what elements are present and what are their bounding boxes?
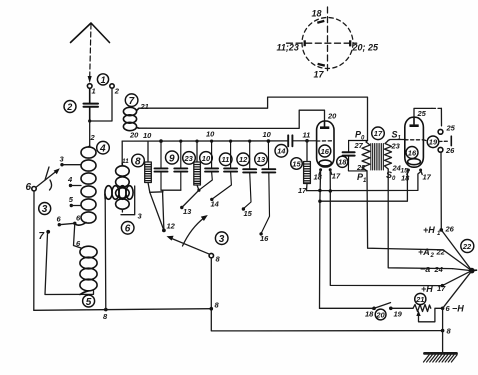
svg-text:23: 23: [391, 142, 401, 151]
grid bus wire 10: [122, 140, 288, 142]
contact 12: [162, 222, 176, 233]
svg-text:17: 17: [423, 173, 432, 182]
svg-text:17: 17: [374, 129, 383, 138]
filament switch S20: [320, 303, 403, 319]
svg-text:11;23: 11;23: [277, 43, 299, 53]
svg-text:8: 8: [135, 156, 141, 167]
svg-text:19: 19: [429, 138, 438, 147]
capacitor C2: [84, 88, 99, 121]
capacitor C13: [261, 141, 275, 233]
svg-text:5: 5: [86, 297, 92, 308]
capacitor ref 18 (circled): [337, 156, 348, 167]
svg-text:1: 1: [92, 87, 96, 96]
phone terminal 25: [438, 124, 456, 135]
svg-text:11: 11: [222, 155, 230, 164]
wire from anode bus down to 25: [440, 108, 442, 126]
svg-text:26: 26: [445, 146, 455, 155]
svg-text:11: 11: [303, 131, 311, 140]
svg-text:17: 17: [314, 70, 325, 80]
wire 17 down to +H lead: [330, 191, 442, 286]
tube V1 ref 16 (circled): [319, 145, 331, 157]
selector switch arm (3): [167, 236, 221, 264]
svg-text:16: 16: [321, 147, 330, 156]
svg-text:18: 18: [365, 310, 374, 319]
junction below C2: [88, 119, 91, 122]
svg-text:13: 13: [257, 155, 266, 164]
wire L7 top to P0 (wire 21): [139, 97, 368, 140]
svg-text:3: 3: [42, 204, 48, 215]
bottom left bus wire 8: [34, 309, 212, 311]
svg-text:4: 4: [67, 175, 73, 184]
node label 1 (circled): [97, 74, 108, 85]
T17 ref 17 (circled): [372, 127, 385, 140]
svg-text:27: 27: [354, 141, 364, 150]
svg-text:20: 20: [129, 131, 139, 140]
-a lead to cable: [453, 269, 472, 271]
capacitor ref 12 (circled): [237, 153, 250, 166]
svg-text:10: 10: [202, 154, 211, 163]
-H lead to cable: [443, 271, 472, 308]
rotation arc arrow: [183, 215, 208, 246]
left vertical wire from terminal 6: [33, 191, 35, 310]
switch S3 arm: [26, 167, 60, 193]
bus junction dots: [159, 139, 270, 143]
svg-text:7: 7: [39, 231, 45, 242]
wire S0 down to -a lead: [388, 169, 452, 269]
wire 2 down to coil L4: [89, 121, 91, 146]
tap 6 contact: [57, 215, 75, 227]
capacitor C18 across primary: [343, 141, 368, 171]
wire terminal2 to junction: [90, 88, 112, 121]
svg-text:11: 11: [122, 158, 129, 165]
node 6 junction: [73, 214, 81, 226]
tap 4: [67, 175, 81, 187]
svg-text:10: 10: [206, 130, 215, 139]
S1 wire to V2 grid: [388, 140, 406, 141]
svg-text:+H: +H: [421, 284, 433, 294]
svg-text:20: 20: [327, 112, 337, 121]
switch ref 20 (circled): [375, 309, 386, 320]
wire bus10 down to T6 top: [121, 141, 123, 163]
antenna arrow: [88, 76, 92, 83]
resistor R15 (grid leak V1): [304, 141, 311, 191]
tube V1 (16) envelope: [317, 121, 334, 167]
wire arm pivot down to bus 8: [211, 258, 442, 331]
ground: [424, 331, 458, 362]
filament line B (wire 18): [320, 172, 408, 201]
T17 core: [371, 144, 384, 171]
svg-text:23: 23: [184, 154, 194, 163]
interstage transformer T17 primary: [362, 141, 370, 171]
tube socket dial: [277, 7, 380, 80]
tap 3: [60, 155, 82, 167]
rheostat ref 21 (circled): [415, 293, 426, 304]
capacitor ref 14 (circled): [275, 145, 288, 158]
svg-text:2: 2: [90, 133, 96, 142]
contact 15: [242, 207, 253, 218]
svg-text:+A: +A: [418, 247, 430, 257]
wire L7 bottom to anode of V1 (wire 20): [139, 110, 325, 128]
svg-text:24: 24: [434, 265, 444, 274]
svg-text:6: 6: [26, 182, 32, 193]
coil ref 4 (circled): [97, 141, 110, 154]
svg-text:12: 12: [167, 222, 176, 231]
svg-text:2: 2: [66, 102, 72, 112]
switch ref 3 (circled): [39, 203, 51, 216]
contact 13: [180, 206, 192, 216]
capacitor C14 (series grid cap): [288, 135, 316, 146]
terminal 7: [39, 230, 51, 242]
resistor ref 15 (circled): [291, 158, 303, 170]
svg-text:10: 10: [263, 130, 272, 139]
terminal 2: [110, 84, 120, 96]
wire joining C9 bottoms: [161, 190, 181, 230]
resistor ref 23 (circled): [183, 152, 196, 165]
contact 14: [210, 198, 220, 209]
phone terminal 26: [438, 146, 455, 155]
selector ref 3 (circled): [215, 232, 228, 245]
tap 5: [69, 195, 81, 207]
coil ref 5 (circled): [83, 295, 95, 308]
capacitor ref 13 (circled): [255, 153, 268, 166]
svg-text:3: 3: [219, 234, 225, 245]
capacitor C9a: [155, 141, 168, 190]
svg-text:17: 17: [298, 186, 307, 195]
svg-text:18: 18: [338, 158, 347, 167]
svg-text:13: 13: [183, 207, 192, 216]
wire T6 primary down to bus 8: [104, 199, 107, 310]
cable ref 22 (circled): [461, 240, 474, 253]
capacitor C9b: [174, 141, 187, 190]
wire 7 to coil L5 bottom: [45, 234, 94, 295]
+A lead to cable: [443, 250, 471, 271]
filament line A (wire 17): [307, 172, 421, 191]
svg-text:15: 15: [244, 209, 253, 218]
capacitor ref 9 (circled): [166, 151, 179, 164]
+H1 node: [423, 225, 455, 238]
svg-text:25: 25: [417, 109, 427, 118]
capacitor ref 2 (circled): [64, 101, 76, 113]
+H dot and lead to cable: [441, 271, 472, 288]
svg-text:16: 16: [260, 234, 269, 243]
tube V2 ref 16 (circled): [406, 147, 418, 159]
svg-text:25: 25: [446, 124, 456, 133]
svg-text:21: 21: [140, 102, 149, 111]
junction node 8 at x106: [103, 308, 108, 321]
svg-text:1: 1: [101, 75, 106, 85]
capacitor ref 10 (circled): [200, 152, 213, 165]
svg-text:−a: −a: [420, 264, 430, 274]
V2 anode wire to 25: [414, 108, 441, 117]
svg-text:10: 10: [143, 131, 152, 140]
svg-text:9: 9: [169, 153, 175, 164]
svg-text:2: 2: [114, 87, 120, 96]
-H node 6: [441, 304, 464, 314]
svg-text:2: 2: [430, 253, 435, 259]
capacitor C10: [199, 141, 218, 190]
-H down to ground bus: [442, 308, 444, 330]
junction below R23: [197, 189, 200, 192]
svg-text:6: 6: [125, 224, 131, 235]
svg-text:7: 7: [129, 96, 135, 107]
variocoupler T6 horizontal winding: [105, 186, 133, 200]
svg-text:20: 20: [375, 310, 385, 319]
svg-text:20; 25: 20; 25: [352, 43, 380, 53]
battery cable node 22: [469, 268, 477, 274]
wire R23 to contact 13: [182, 190, 199, 207]
tube V2 pins: [401, 169, 432, 183]
T6 frame bracket: [121, 186, 135, 215]
wire 26 down to +H1: [440, 152, 442, 230]
rheostat R21: [391, 305, 443, 322]
svg-text:12: 12: [239, 155, 248, 164]
svg-text:18: 18: [312, 9, 322, 19]
svg-text:21: 21: [415, 295, 424, 304]
T17 secondary: [385, 141, 392, 169]
svg-text:18: 18: [314, 173, 323, 182]
contact 16: [259, 232, 269, 243]
variocoupler T6 vertical winding: [116, 163, 130, 209]
svg-text:4: 4: [99, 144, 106, 155]
svg-text:+H: +H: [423, 225, 435, 235]
wire tap6 down to L5: [74, 223, 82, 248]
svg-text:17: 17: [332, 172, 341, 181]
coil ref 7 (circled): [125, 94, 138, 107]
coil L5: [80, 246, 97, 294]
terminal 1: [87, 84, 95, 96]
tube V2 (16) envelope: [405, 117, 424, 167]
resistor R8 (grid leak): [145, 141, 164, 230]
coil L4: [75, 146, 96, 225]
capacitor C12: [243, 141, 256, 209]
wire V1 pin17 to line A: [329, 170, 331, 191]
antenna: [71, 23, 110, 78]
svg-text:16: 16: [408, 148, 417, 157]
node 11: [303, 131, 311, 143]
svg-text:15: 15: [292, 159, 301, 168]
svg-text:19: 19: [394, 310, 403, 319]
svg-text:−H: −H: [452, 304, 464, 314]
tickler coil L7: [123, 107, 139, 130]
svg-text:18: 18: [401, 174, 410, 183]
tube V1 pins: [314, 168, 341, 181]
jack ref 19 (circled) + blade: [423, 136, 451, 148]
svg-text:14: 14: [277, 147, 286, 156]
wire P1 down to +A lead: [367, 171, 443, 250]
svg-text:14: 14: [211, 200, 220, 209]
+H1 lead to cable: [441, 230, 471, 270]
capacitor ref 11 (circled): [219, 153, 232, 166]
wire V1 pin18 down: [320, 170, 321, 308]
resistor R23: [194, 141, 201, 190]
transformer ref 6 (circled): [121, 222, 134, 235]
svg-text:22: 22: [436, 248, 446, 257]
capacitor C11: [212, 141, 237, 199]
svg-text:26: 26: [445, 225, 455, 234]
svg-text:22: 22: [462, 242, 472, 251]
resistor ref 8 (circled): [132, 154, 145, 167]
